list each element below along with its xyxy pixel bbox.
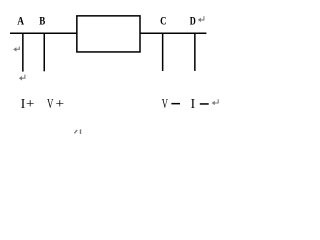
wire left horizontal: [10, 32, 78, 34]
paragraph return mark 5 (bottom edge, clipped): [74, 129, 81, 134]
svg-text:I: I: [191, 96, 195, 111]
paragraph return mark 3 (after label D): [198, 16, 204, 22]
svg-text:+: +: [56, 96, 65, 111]
svg-text:V: V: [47, 96, 54, 111]
svg-text:I: I: [21, 96, 25, 111]
paragraph return mark 4 (after label I-): [212, 99, 219, 105]
wire lead D vertical: [194, 33, 196, 71]
svg-text:A: A: [17, 14, 24, 28]
svg-text:+: +: [26, 96, 35, 111]
svg-text:D: D: [190, 14, 196, 28]
wire lead A vertical: [22, 33, 24, 72]
svg-text:B: B: [39, 14, 45, 28]
paragraph return mark 1 (left margin): [13, 47, 19, 52]
wire lead B vertical: [43, 33, 45, 71]
svg-text:V: V: [162, 96, 168, 111]
resistor box (DUT four-terminal resistor): [77, 16, 140, 52]
wire right horizontal: [140, 32, 207, 34]
paragraph return mark 2 (below lead A): [19, 75, 25, 81]
svg-text:C: C: [160, 14, 166, 28]
wire lead C vertical: [162, 33, 164, 71]
